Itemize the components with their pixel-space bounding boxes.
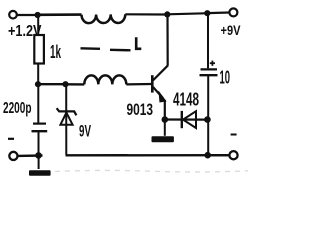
- wire right rail lower: [207, 75, 209, 119]
- node F: [35, 152, 42, 159]
- svg-text:2200p: 2200p: [3, 100, 32, 117]
- svg-text:9V: 9V: [79, 122, 91, 141]
- wire: [167, 13, 205, 14]
- node G emitter junction: [162, 116, 169, 123]
- terminal T4 output negative: [229, 151, 237, 159]
- ground chassis left: [29, 170, 51, 176]
- svg-text:1k: 1k: [50, 42, 62, 62]
- node H: [204, 116, 211, 123]
- svg-text:+9V: +9V: [221, 22, 242, 38]
- wire emitter: [164, 100, 166, 118]
- wire bottom rail: [66, 154, 230, 157]
- capacitor C2 10u electrolytic: [200, 61, 218, 76]
- wire: [17, 14, 36, 16]
- capacitor C1 2200p: [32, 124, 48, 132]
- node I: [204, 152, 211, 159]
- node D: [35, 81, 41, 87]
- label L: [136, 37, 141, 49]
- wire: [38, 131, 40, 154]
- resistor R1 1k: [34, 35, 44, 64]
- node E: [62, 81, 68, 87]
- wire: [126, 83, 151, 86]
- svg-text:4148: 4148: [173, 89, 199, 110]
- wire: [18, 154, 43, 157]
- svg-text:9013: 9013: [127, 100, 154, 119]
- inductor L secondary winding: [84, 75, 126, 84]
- wire: [207, 11, 229, 14]
- ground chassis emitter: [152, 136, 174, 142]
- label minus input: [8, 138, 14, 140]
- wire collector: [166, 15, 168, 66]
- wire: [165, 118, 205, 120]
- transistor Q1 9013: [152, 65, 168, 101]
- wire: [37, 15, 39, 36]
- terminal T1 +1.2V input: [9, 11, 17, 19]
- node A: [35, 12, 41, 18]
- wire: [208, 154, 230, 156]
- wire: [37, 64, 39, 85]
- node C: [204, 10, 210, 16]
- label minus output: [231, 134, 237, 136]
- zener diode VD1 9V: [57, 108, 77, 125]
- node B: [164, 11, 170, 17]
- wire: [37, 84, 39, 123]
- scan smudge artifact: [55, 170, 248, 172]
- wire: [66, 83, 85, 85]
- wire: [38, 83, 63, 85]
- terminal T2 +9V output: [229, 8, 237, 16]
- diode VD2 4148: [182, 111, 196, 128]
- wire: [38, 155, 40, 169]
- inductor L primary winding: [82, 14, 126, 23]
- wire: [65, 84, 67, 155]
- svg-text:10: 10: [220, 68, 231, 88]
- wire right rail upper: [207, 13, 209, 68]
- wire: [125, 13, 164, 15]
- transformer core: [81, 48, 131, 50]
- wire: [38, 13, 82, 16]
- wire: [164, 120, 166, 136]
- terminal T3 input negative: [9, 152, 17, 160]
- wire: [207, 120, 209, 154]
